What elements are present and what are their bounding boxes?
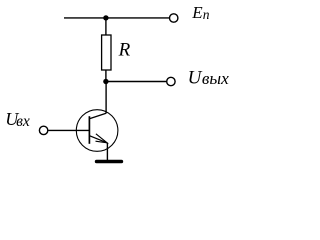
wire: resistor to node B <box>105 70 107 82</box>
transistor VT1 collector lead (diagonal) <box>89 113 106 119</box>
svg-text:Uвх: Uвх <box>5 109 30 130</box>
transistor VT1 emitter lead (diagonal) <box>89 136 107 143</box>
transistor VT1 emitter arrowhead <box>96 134 108 143</box>
node A (junction dot on supply rail) <box>103 15 108 20</box>
wire: node B down to collector <box>105 82 107 114</box>
transistor VT1 (NPN, common emitter) <box>76 110 118 152</box>
wire: top supply rail <box>64 17 169 19</box>
resistor R (body) <box>102 35 111 70</box>
wire: node A down to resistor <box>105 18 107 36</box>
terminal Eп (open circle) <box>170 14 178 22</box>
svg-text:R: R <box>118 39 131 60</box>
transistor VT1 base bar <box>88 116 90 144</box>
wire: input terminal to base <box>48 129 89 131</box>
wire: emitter down to ground <box>106 143 108 161</box>
ground (common) bar <box>97 160 122 164</box>
terminal Uвх (open circle) <box>39 126 47 134</box>
transistor VT1 body circle <box>76 110 118 152</box>
node B (junction dot at collector/output) <box>103 79 108 84</box>
wire: node B to output terminal <box>106 81 166 83</box>
svg-text:Uвых: Uвых <box>188 67 230 88</box>
terminal Uвых (open circle) <box>167 77 175 85</box>
